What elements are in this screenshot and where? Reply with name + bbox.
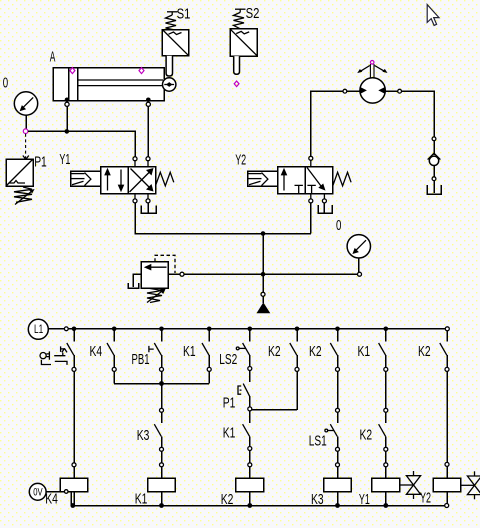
node marker (magenta diamond) on cylinder right [139,68,144,74]
svg-text:S2: S2 [246,6,260,22]
wire: cylinder port B down to valve Y1 [147,106,149,157]
label K2 (branch 8 lower contact) [360,428,373,444]
label K3 (coil) [311,492,324,508]
wire: parallel link B [252,409,297,411]
cylinder rod-end roller cam [163,78,176,91]
label LS2 [219,352,237,368]
branch 2 port circle [112,367,116,371]
contact P1 (branch 5, NO pressure switch) [238,384,250,407]
contact LS1 bottom port circle [336,447,340,451]
relief valve outlet port circle [180,272,184,276]
coil Y1 (valve solenoid) [372,467,400,506]
valve Y1 body [101,167,156,194]
valve Y1 solenoid [71,171,101,186]
wire: branch 4 to link A [208,371,210,383]
wire: motor right stub [385,90,397,92]
svg-text:Y2: Y2 [420,491,431,507]
svg-text:0V: 0V [33,487,43,499]
wire: motor right to check valve [402,91,435,137]
contact K2 (branch 6, NO) [290,329,297,368]
label K3 (contact) [137,428,150,444]
label 0 (gauge G2) [336,218,341,234]
supply 0V symbol [29,483,64,500]
svg-text:0: 0 [3,76,8,92]
contact LS1 top port circle [336,408,340,412]
label K1 (branch 5 contact) [223,425,236,441]
limit switch S1 [162,12,189,76]
svg-text:LS1: LS1 [309,434,327,450]
contact K2 (branch 7, NO) [330,329,337,368]
tank at valve Y2 [318,203,332,213]
cylinder port A circle [65,102,69,106]
check valve CV1 [428,141,441,177]
valve Y2 solenoid [248,171,278,186]
contact LS2 (branch 5, NO limit switch) [236,329,250,367]
label P1 [34,154,47,170]
pressure source port circle [261,292,265,296]
wire: valve Y1 port P to supply bus [135,203,311,234]
wire: dashed pilot line to pressure switch P1 [25,134,27,158]
wire: parallel link A [114,383,209,385]
contact PB1 (branch 3, NO pushbutton) [149,329,162,368]
svg-text:K2: K2 [360,428,373,444]
svg-text:K1: K1 [223,425,236,441]
motor M1 right port circle [398,89,402,93]
contact LS1 (branch 7, NO limit switch) [325,412,338,447]
label Y1 (coil) [359,492,370,508]
contact LS2 bottom port circle [248,367,252,371]
valve Y1 port circles [133,157,150,203]
label P1 (contact) [223,395,236,411]
contact P1 bottom port circle [248,407,252,411]
wire: top rail [68,328,445,330]
label Y2 (coil) [420,491,431,507]
valve Y1 port stubs [135,161,148,199]
wire: branch 7 to LS1 [337,371,339,408]
branch 6 port circle [295,367,299,371]
junction: supply bus / pump riser [261,231,266,236]
label A (cylinder) [50,50,56,66]
label K1 (branch 4 contact) [183,344,196,360]
hydraulic motor M1 [357,64,387,103]
wire: bottom rail [71,505,445,507]
tank at check valve [427,181,441,194]
relief valve V1 [141,255,175,302]
label K1 (coil) [135,491,148,507]
cylinder A [53,68,164,101]
pressure switch P1 arrow into box [23,156,29,160]
label K2 (coil) [221,492,234,508]
wire: relief line to gauge G2 [184,273,358,275]
contact 연속 (branch 1, NO with detent) [61,329,74,368]
junction dots on bottom rail [70,503,388,508]
supply L1 symbol [28,319,64,339]
motor M1 left port circle [343,89,347,93]
contact K1 (branch 8, NO) [379,329,386,368]
contact K1 (branch 5, NO) [243,411,250,447]
svg-text:K1: K1 [135,491,148,507]
svg-text:K3: K3 [137,428,150,444]
svg-text:LS2: LS2 [219,352,237,368]
node marker (magenta diamond) on cylinder left [70,68,75,74]
node: open connection marker (magenta) motor shaft [370,61,374,65]
coil K1 [148,467,176,506]
wire: 0V to bottom rail [68,492,71,506]
label PB1 [132,352,150,368]
pressure switch P1 [6,159,35,205]
coil K3 top port circle [336,463,340,467]
tank at relief valve [128,274,141,288]
svg-text:PB1: PB1 [132,352,150,368]
svg-text:K2: K2 [309,344,322,360]
wire: branch 1 down to coil K4 [73,371,75,462]
node marker (magenta diamond) below S2 [234,81,239,87]
label K1 (branch 8 contact) [358,344,371,360]
wire: branch 2 to parallel link A [113,371,115,383]
svg-text:K2: K2 [418,344,431,360]
svg-text:K1: K1 [183,344,196,360]
label K4 (coil) [45,491,58,507]
label K2 (branch 9 contact) [418,344,431,360]
contact K3 top port circle [160,408,164,412]
junction: link A / branch 3 [159,381,164,386]
wire: branch 9 down to coil Y2 [446,371,448,462]
svg-text:K4: K4 [90,344,103,360]
junction: cylinder left port / gauge line [65,129,70,134]
svg-text:Y2: Y2 [235,153,246,169]
wire: branch 8 to K2 contact [385,371,387,408]
contact K2 top port circle (branch 8) [384,408,388,412]
svg-text:K2: K2 [221,492,234,508]
coil K1 top port circle [160,463,164,467]
label K2 (branch 6 contact) [268,344,281,360]
cylinder port B dot [146,98,151,103]
top rail end port circle [445,327,449,331]
contact K4 (branch 2, NO) [107,329,114,368]
limit switch S1 label [177,7,191,23]
bottom rail end port circle [445,504,449,508]
wire: to coil K1 [161,451,163,463]
mouse cursor [427,5,439,26]
svg-text:Y1: Y1 [359,492,370,508]
svg-text:K4: K4 [45,491,58,507]
wire: gauge G1 to junction to valve Y1 port A [28,131,135,157]
wire: Y2 port A up to motor [311,91,343,156]
wire: LS2 to P1 contact [249,371,251,383]
limit switch S2 [230,9,257,74]
svg-text:S1: S1 [177,7,191,23]
wire: cylinder port A down [66,106,68,131]
coil K2 top port circle [248,463,252,467]
wire: valve Y2 port P down to supply bus [310,203,312,234]
limit switch S2 label [246,6,260,22]
contact K2 (branch 9, NO) [440,331,447,368]
pressure gauge G2 [347,235,370,273]
contact K1 bottom port circle [248,447,252,451]
coil Y1 top port circle [384,463,388,467]
coil K4 top port circle [72,463,76,467]
wire: branch 6 to link B [296,371,298,410]
check valve top port circle [432,137,436,141]
node: open connection marker (magenta) at gauge G1 [23,129,28,134]
valve Y2 port stubs [311,160,325,199]
coil Y2 top port circle [445,462,449,466]
valve Y1 return spring [156,172,174,186]
cylinder port B circle [146,102,150,106]
coil K4 [60,467,88,506]
pressure gauge G1 label 0 [3,76,8,92]
valve indicator icon at coil Y1 [400,471,421,499]
wire: branch 3 PB1 to K3 contact [161,371,163,408]
contact K3 bottom port circle [160,447,164,451]
gauge G2 port circle [358,272,362,276]
wire: pump riser [262,234,264,293]
contact K1 (branch 4, NO) [202,329,209,368]
junction: relief line / pump riser [261,272,266,277]
contact K2 bottom port circle (branch 8) [384,447,388,451]
valve Y2 return spring [333,172,351,186]
svg-text:K2: K2 [268,344,281,360]
svg-text:P1: P1 [223,395,236,411]
wire: to coil K3 [337,451,339,463]
tank at valve Y1 [141,203,156,213]
branch 3 port circle [160,367,164,371]
valve Y2 port circles [309,156,327,203]
coil Y2 (valve solenoid) [433,466,461,503]
0V port circle [64,490,68,494]
junction dots on top rail [72,327,388,332]
svg-text:0: 0 [336,218,341,234]
valve Y2 body [278,167,333,194]
wire: relief valve outlet [168,273,180,275]
check valve bottom port circle [432,177,436,181]
pressure source stub [262,296,264,303]
branch 8 port circle [384,367,388,371]
label K4 (contact) [90,344,103,360]
label LS1 [309,434,327,450]
branch 4 port circle [207,367,211,371]
wire: to coil Y1 [385,451,387,463]
cylinder port A dot [65,98,70,103]
svg-text:K1: K1 [358,344,371,360]
pressure source P (filled triangle) [257,302,271,313]
valve indicator icon at coil Y2 [461,471,480,499]
coil K2 [236,467,264,506]
svg-text:Y1: Y1 [59,152,70,168]
svg-text:K3: K3 [311,492,324,508]
pressure gauge G1 [14,92,37,129]
label Y2 [235,153,246,169]
branch 9 port circle [445,367,449,371]
wire: to coil K2 [249,451,251,463]
label Y1 [59,152,70,168]
wire: motor left stub [347,90,360,92]
label K2 (branch 7 contact) [309,344,322,360]
coil K3 [324,467,352,506]
contact K2 (branch 8, NO) [379,412,386,447]
svg-text:A: A [50,50,56,66]
L1 port circle [64,327,68,331]
svg-text:L1: L1 [34,324,43,336]
label 연속 (hand-drawn hangul) [40,348,67,365]
branch 7 port circle [336,367,340,371]
svg-text:P1: P1 [34,154,47,170]
contact K3 (branch 3, NO) [154,412,161,447]
branch 1 port circle [72,367,76,371]
